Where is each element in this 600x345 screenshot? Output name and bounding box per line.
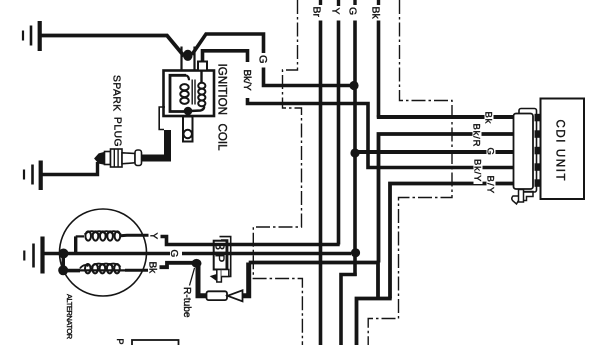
label Bk/R (CDI) <box>471 123 482 149</box>
label Bk (alternator) <box>147 261 160 274</box>
wire: spark plug tip to ground 2 <box>42 162 98 175</box>
label Bk/Y (coil wire) <box>241 62 253 98</box>
svg-text:G: G <box>168 250 179 258</box>
label Br (top) <box>311 5 328 21</box>
svg-text:COIL: COIL <box>216 124 229 152</box>
label Y (top) <box>330 6 345 20</box>
label Bk (top) <box>370 5 386 21</box>
coil secondary junction dot <box>184 107 193 116</box>
wire G (top vertical) <box>353 0 356 276</box>
wire Bk run to junction with Bk/R <box>249 261 379 265</box>
svg-text:R-tube: R-tube <box>181 287 192 318</box>
svg-text:IGNITION: IGNITION <box>216 64 229 116</box>
svg-text:Bk: Bk <box>147 262 158 275</box>
wire: junction down to resistor <box>198 263 207 295</box>
coil primary winding <box>170 75 189 111</box>
junction dot G x coil-G <box>349 81 358 90</box>
svg-text:PLUG: PLUG <box>112 117 123 147</box>
CDI connector backing plate <box>519 109 537 193</box>
wire: ground1 to ignition coil tower <box>41 36 184 57</box>
wire Y: alternator to Y-bus <box>161 237 340 245</box>
svg-text:Bk/Y: Bk/Y <box>241 70 252 91</box>
label IGNITION COIL <box>216 64 229 152</box>
svg-text:SPARK: SPARK <box>111 75 122 112</box>
wire Bk/Y: coil terminal to CDI <box>203 51 515 168</box>
wire Bk (top vertical) <box>377 0 380 118</box>
3P connector body <box>214 241 227 270</box>
svg-text:CDI UNIT: CDI UNIT <box>554 120 566 183</box>
label Y (alternator) <box>148 232 161 242</box>
CDI unit box <box>541 99 585 200</box>
alternator exciter coil <box>63 264 148 274</box>
label G (alternator) <box>168 249 182 260</box>
alternator ground (ground 3) <box>24 237 42 274</box>
svg-text:G: G <box>257 55 269 64</box>
label B/Y (CDI) <box>485 175 496 197</box>
label SPARK PLUG <box>111 75 123 147</box>
CDI connector pins <box>535 114 542 187</box>
label G (CDI) <box>485 147 496 157</box>
svg-text:B/Y: B/Y <box>485 176 496 195</box>
wire B/Y to CDI <box>390 184 514 299</box>
ground 1 (top left) <box>23 21 40 51</box>
harness boundary right (dash-dot) <box>368 0 452 345</box>
wire B/Y bottom run <box>357 299 392 345</box>
svg-text:Bk/Y: Bk/Y <box>472 159 483 182</box>
ground 2 <box>24 161 41 191</box>
svg-text:P: P <box>115 339 125 345</box>
wire: triangle up to Bk run <box>243 263 249 296</box>
coil mounting bracket <box>159 107 165 130</box>
svg-text:Y: Y <box>148 233 159 240</box>
wire G: alternator to G-bus <box>64 252 352 256</box>
label G (top) <box>347 6 362 21</box>
junction dot alternator lower <box>58 265 68 275</box>
CDI connector body <box>514 114 534 190</box>
coil core <box>192 80 195 105</box>
wire G: coil to G-bus junction <box>192 34 353 86</box>
alternator charge coil <box>76 231 149 252</box>
wire Bk to CDI <box>377 115 514 119</box>
svg-text:Bk: Bk <box>483 112 494 125</box>
wire Bk/R to CDI <box>379 134 515 263</box>
wire G to CDI <box>355 150 514 154</box>
3P connector bracket <box>220 237 231 277</box>
wire Br (top vertical) <box>319 0 322 345</box>
ignition coil box <box>164 71 215 117</box>
spark plug <box>95 149 142 167</box>
junction blob R-tube <box>192 259 202 268</box>
pulser box (bottom, cut off) <box>132 340 179 345</box>
svg-text:G: G <box>485 148 496 155</box>
svg-text:Y: Y <box>330 8 342 15</box>
harness boundary left (dash-dot) <box>253 0 302 345</box>
label G (coil wire) <box>257 53 270 68</box>
wire between dots <box>62 254 65 271</box>
wire Bk: alternator to R-tube junction <box>159 263 200 267</box>
wire Y (top vertical) <box>337 0 340 245</box>
wire ground3 to alternator <box>44 252 66 256</box>
diode triangle <box>228 290 243 301</box>
junction dot G x CDI-G <box>350 148 359 157</box>
wire G lower jog to bottom <box>341 275 357 345</box>
label R-tube with leader <box>181 268 195 318</box>
CDI connector clip/hook <box>512 190 533 205</box>
coil HT terminal below box <box>183 113 193 142</box>
svg-text:ALTERNATOR: ALTERNATOR <box>65 294 74 340</box>
HT cable: coil to spark plug <box>141 130 168 158</box>
wire B/Y U-link down leg <box>376 263 380 299</box>
alternator circle <box>60 209 147 296</box>
coil terminal (Bk/Y) on box top <box>198 62 207 71</box>
svg-text:Br: Br <box>311 7 323 18</box>
svg-text:Bk: Bk <box>370 7 382 20</box>
svg-text:Bk/R: Bk/R <box>471 124 482 148</box>
label Bk/Y (CDI) <box>472 158 483 184</box>
coil secondary winding <box>190 71 205 112</box>
ignition coil tower (boot) <box>182 47 195 71</box>
resistor R-tube <box>207 291 228 300</box>
svg-text:G: G <box>347 7 359 15</box>
junction dot alternator upper <box>59 249 69 259</box>
junction dot G x alternator-G <box>351 248 360 257</box>
label Bk (CDI) <box>483 111 494 125</box>
svg-text:3P: 3P <box>213 243 227 266</box>
3P connector legs <box>211 270 229 283</box>
